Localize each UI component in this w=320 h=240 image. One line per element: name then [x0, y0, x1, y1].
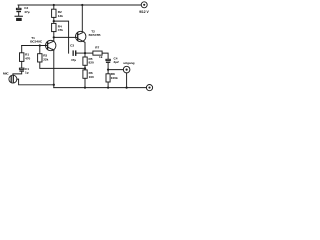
svg-text:R7: R7 — [95, 45, 99, 49]
node C4/R8/output — [107, 68, 109, 70]
supply terminal 9/12V — [141, 2, 147, 8]
wire node to R7 — [85, 52, 93, 54]
wire node to R8 — [107, 70, 109, 74]
wire R3 to feedback node — [40, 62, 85, 68]
resistor R7 — [93, 51, 102, 55]
node rail-R2 — [53, 4, 55, 6]
wire R5 to R6 — [84, 65, 86, 70]
capacitor C3 — [73, 50, 86, 56]
wire C1 to microphone — [13, 72, 22, 76]
transistor T1 — [46, 40, 56, 50]
wire +V top rail — [18, 4, 141, 6]
node base/R3 — [39, 44, 41, 46]
wire bootstrap branch to C3 — [54, 21, 69, 53]
svg-text:100: 100 — [89, 75, 94, 79]
wire node to output terminal — [108, 69, 123, 71]
wire C4 to output node — [107, 63, 109, 70]
wire T1 base — [22, 45, 48, 47]
svg-text:47µ: 47µ — [24, 10, 29, 14]
wire microphone return — [17, 79, 54, 85]
resistor R5 — [83, 57, 87, 65]
svg-text:BC547B: BC547B — [89, 33, 102, 37]
resistor R3 — [38, 54, 42, 62]
svg-text:22k: 22k — [43, 57, 48, 61]
node R5/R6 feedback junction — [84, 67, 86, 69]
node A junction R2/R4 — [53, 20, 55, 22]
svg-text:9/12 V: 9/12 V — [139, 10, 149, 14]
svg-text:12k: 12k — [58, 14, 63, 18]
svg-text:uitgang: uitgang — [123, 61, 134, 65]
node shield ground — [125, 86, 127, 88]
output terminal — [123, 66, 130, 73]
svg-text:2µ2: 2µ2 — [114, 60, 120, 64]
svg-text:820: 820 — [89, 61, 94, 65]
svg-text:BC549C: BC549C — [30, 39, 43, 43]
wire ground rail — [54, 87, 147, 89]
resistor R8 — [106, 74, 110, 82]
node C3/R5/R7/T2 emitter — [84, 52, 86, 54]
transistor T2 — [76, 5, 86, 53]
resistor R4 — [52, 23, 56, 31]
node T1 collector / T2 base — [53, 36, 55, 38]
node R6 ground — [84, 87, 86, 89]
svg-text:470: 470 — [25, 56, 30, 60]
wire R7 to C4 — [102, 53, 108, 59]
node T2 collector rail — [81, 4, 83, 6]
wire R1 to C1 — [21, 61, 23, 68]
wire R2 to R4 — [53, 17, 55, 23]
wire R8 to ground rail — [107, 82, 109, 88]
svg-text:100k: 100k — [111, 76, 118, 80]
capacitor C2 — [16, 5, 21, 16]
wire base node down to R3 — [39, 46, 41, 54]
svg-text:1k: 1k — [99, 55, 103, 59]
resistor R6 — [83, 70, 87, 78]
svg-text:47µ: 47µ — [71, 58, 76, 62]
svg-text:C3: C3 — [70, 44, 74, 48]
wire base corner down to R1 — [21, 46, 23, 53]
node mic return / emitter line — [53, 84, 55, 86]
resistor R1 — [20, 53, 24, 62]
wire output shield to ground — [126, 73, 128, 88]
wire T2 emitter node to R5 — [84, 53, 86, 57]
svg-text:1µ: 1µ — [25, 71, 29, 75]
wire R4 to T1 collector — [53, 32, 55, 41]
ground under C2 — [15, 16, 23, 21]
wire T1 emitter to ground — [53, 50, 55, 87]
svg-text:MIC: MIC — [3, 72, 9, 76]
resistor R2 — [52, 9, 56, 17]
capacitor C1 — [19, 68, 24, 72]
capacitor C4 — [106, 59, 110, 63]
wire rail to R2 — [53, 5, 55, 9]
microphone — [9, 75, 17, 83]
ground terminal — [146, 85, 152, 91]
node R8 ground — [107, 87, 109, 89]
wire R6 to ground rail — [84, 78, 86, 87]
svg-text:47k: 47k — [58, 28, 63, 32]
wire T2 base feed — [54, 36, 78, 38]
